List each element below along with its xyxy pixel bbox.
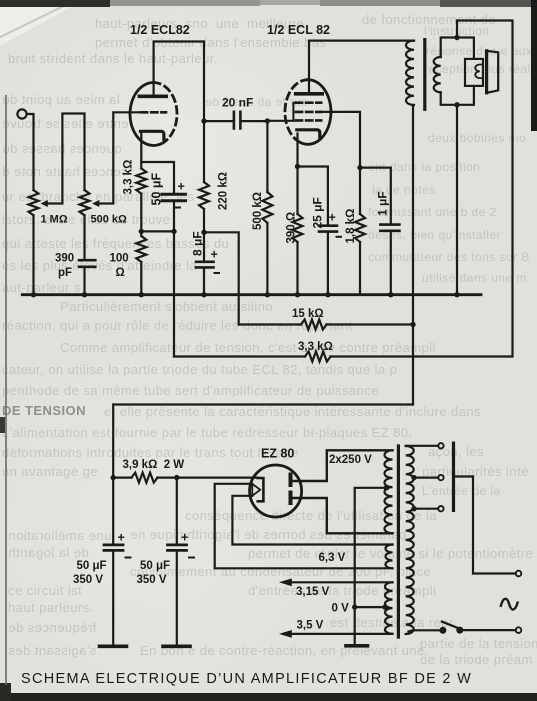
svg-text:100: 100 [110, 253, 129, 265]
wire 50uF bottom to node and down to feedback line [173, 202, 175, 356]
B+ riser to output transformer [412, 105, 414, 405]
EZ80 filament triangle [252, 484, 260, 496]
3.5V tap wire with arrow [291, 633, 393, 635]
wire cathode node to 25uF [298, 167, 328, 225]
output transformer T1 primary winding [406, 41, 414, 105]
wire pentode anode to output transformer [309, 41, 414, 94]
wire input to pot top [27, 114, 34, 190]
EZ80 cathode bracket [258, 478, 264, 501]
svg-text:3,5 V: 3,5 V [297, 620, 324, 632]
svg-text:390: 390 [55, 253, 74, 265]
svg-text:+: + [329, 211, 336, 225]
svg-text:20 nF: 20 nF [222, 96, 253, 110]
potentiometer 1 Mohm body [29, 190, 39, 215]
svg-text:390 Ω: 390 Ω [286, 212, 298, 244]
resistor 220 kohm [199, 182, 209, 209]
svg-text:+: + [211, 248, 218, 262]
capacitor 1uF plates [380, 225, 399, 231]
svg-text:1/2 ECL82: 1/2 ECL82 [130, 23, 190, 37]
mains terminal upper [516, 571, 522, 577]
svg-text:1,8 kΩ: 1,8 kΩ [345, 209, 357, 244]
wire node to capacitor no.2 [176, 478, 178, 544]
pentode U1b anode bar [296, 92, 323, 96]
wire speaker return to ground bus [456, 105, 458, 295]
wire 50uF no.2 to ground [176, 552, 178, 645]
svg-text:6,3 V: 6,3 V [319, 552, 346, 564]
resistor 1.8 kohm [355, 214, 365, 242]
power transformer T2 HT winding [385, 450, 393, 533]
feedback line with resistor 3.3 kohm [174, 355, 305, 357]
rectifier tube V2 EZ80 envelope [250, 465, 302, 517]
ground bus 0V [22, 293, 481, 296]
svg-text:1 μF: 1 μF [376, 191, 390, 216]
wire cathode to 50uF top [141, 162, 174, 193]
svg-text:25 μF: 25 μF [311, 197, 325, 228]
wire 50uF no.1 to ground [112, 552, 114, 645]
svg-text:0 V: 0 V [332, 603, 350, 615]
resistor 500 kohm grid leak [266, 121, 268, 192]
pentode U1b 1/2 ECL82 envelope [295, 80, 331, 145]
heater wire inner [232, 496, 392, 545]
triode U1a grid (dashed) [141, 111, 166, 114]
svg-text:350 V: 350 V [137, 574, 167, 586]
triode U1a 1/2 ECL82 envelope [130, 83, 167, 146]
svg-text:SCHEMA ELECTRIQUE D’UN AMPLIFI: SCHEMA ELECTRIQUE D’UN AMPLIFICATEUR BF … [21, 671, 472, 687]
HT centre tap to ground [355, 488, 387, 644]
wire 220k node to 20nF [204, 120, 233, 122]
AC symbol [501, 599, 518, 610]
wire switch to mains terminal lower [460, 629, 516, 631]
pentode U1b grid g3 dashed [296, 101, 321, 104]
capacitor C 390pF plates [79, 260, 95, 267]
capacitor 20nF plates [234, 112, 241, 129]
wire secondary bottom to speaker [441, 86, 474, 105]
resistor 15 kohm B+ filter [239, 323, 301, 325]
svg-text:1/2 ECL 82: 1/2 ECL 82 [267, 23, 330, 37]
wire mains winding bottom to switch [409, 630, 443, 631]
wire 20nF to grid node [242, 120, 268, 122]
capacitor 50uF 350V no.1 plates [104, 545, 123, 551]
pentode U1b cathode [297, 130, 320, 137]
pentode U1b grid g1 dashed [296, 119, 321, 122]
svg-text:500 kΩ: 500 kΩ [252, 192, 264, 230]
node wire 3.3k/100ohm to 50uF bottom [141, 230, 174, 232]
wire screen g2 to node [321, 112, 360, 168]
svg-text:50 μF: 50 μF [77, 560, 107, 572]
svg-text:3,3 kΩ: 3,3 kΩ [123, 160, 135, 195]
pentode g3-g1 bracket [293, 103, 296, 121]
ground symbol no.2 [163, 644, 190, 648]
pot2 wiper arrow and wire to triode grid [99, 112, 142, 203]
wire secondary top to speaker [441, 38, 474, 59]
wire 3.3k to node [140, 194, 142, 236]
resistor 3.9 kohm 2W [113, 477, 131, 479]
resistor 100 ohm [136, 236, 146, 262]
svg-text:2x250 V: 2x250 V [329, 454, 372, 466]
pot1 wiper arrow and wire to pot2 top [47, 114, 85, 204]
speaker LS1 diaphragm [485, 51, 488, 93]
switch S1 blade [442, 622, 461, 630]
svg-text:500 kΩ: 500 kΩ [91, 214, 128, 226]
input terminal J1 [17, 109, 26, 118]
power transformer T2 6.3V winding [386, 545, 393, 569]
wire grid node to pentode grid [267, 120, 293, 122]
wire 220k to node [203, 209, 205, 232]
svg-text:+: + [181, 531, 188, 545]
wire anode up over to 220k column [154, 42, 204, 183]
output transformer T1 core [423, 40, 426, 110]
wire selector to mains terminal [454, 477, 516, 574]
resistor 3.3 kohm cathode [136, 168, 146, 193]
ground symbol no.1 [100, 644, 127, 648]
wire 3.9k node to EZ80 cathode [177, 477, 258, 479]
wire B+ node down to capacitor [112, 478, 114, 544]
capacitor 50uF plates [162, 194, 186, 200]
svg-text:3,15 V: 3,15 V [296, 586, 330, 598]
svg-text:pF: pF [58, 267, 72, 279]
wire pot1 bottom to ground bus [32, 215, 34, 294]
wire triode cathode down [140, 132, 142, 169]
wire 8uF node right and down to 15k [204, 232, 239, 324]
svg-text:350 V: 350 V [73, 574, 103, 586]
svg-text:EZ 80: EZ 80 [261, 447, 294, 461]
svg-text:220 kΩ: 220 kΩ [218, 172, 230, 210]
resistor 390 ohm [293, 214, 303, 242]
ground symbol no.3 [346, 644, 368, 648]
mains tap wires [406, 446, 439, 509]
svg-text:+: + [118, 531, 125, 545]
pentode U1b grid g2 dashed [296, 111, 321, 114]
svg-text:3,9 kΩ 2 W: 3,9 kΩ 2 W [123, 459, 185, 471]
speaker LS1 cone [487, 51, 499, 93]
triode U1a cathode [141, 131, 164, 139]
svg-text:3,3 kΩ: 3,3 kΩ [298, 341, 333, 353]
3.15V tap wire with arrow [291, 581, 393, 583]
wire EZ80 top anode to HT winding top [293, 450, 393, 481]
EZ80 anode plates [289, 475, 293, 504]
wire pot2 bottom to capacitor 390pF [83, 215, 85, 259]
B+ lower run [113, 405, 413, 478]
svg-text:15 kΩ: 15 kΩ [292, 308, 324, 320]
capacitor 8uF plates [196, 262, 214, 268]
triode U1a anode bar [139, 95, 166, 99]
voltage selector bar [452, 443, 455, 510]
wire 390pF to ground bus [83, 268, 85, 295]
0V tap wire [355, 606, 385, 608]
svg-text:8 μF: 8 μF [191, 231, 205, 256]
potentiometer 500 kohm body [80, 190, 90, 215]
wire EZ80 bottom anode to HT winding bottom [293, 498, 393, 533]
speaker LS1 magnet box [465, 59, 483, 86]
svg-text:+: + [178, 180, 185, 194]
wire 100ohm to ground bus [140, 262, 142, 295]
speaker LS1 voice coil [475, 65, 483, 79]
output transformer T1 secondary winding [434, 57, 441, 92]
mains tap terminals [438, 443, 443, 448]
wire pentode cathode down [296, 134, 298, 215]
svg-text:50 μF: 50 μF [150, 172, 164, 205]
power transformer T2 mains winding [406, 446, 414, 634]
power transformer T2 core [397, 446, 400, 637]
heater wire outer [215, 484, 393, 569]
power transformer T2 LT winding [385, 582, 392, 634]
wire screen node to 1uF [360, 168, 391, 224]
svg-text:1 MΩ: 1 MΩ [41, 214, 68, 226]
svg-text:50 μF: 50 μF [140, 560, 170, 572]
capacitor 50uF 350V no.2 plates [168, 545, 187, 551]
mains terminal lower [516, 627, 522, 633]
capacitor 25uF plates [319, 226, 337, 232]
svg-text:Ω: Ω [116, 267, 125, 279]
